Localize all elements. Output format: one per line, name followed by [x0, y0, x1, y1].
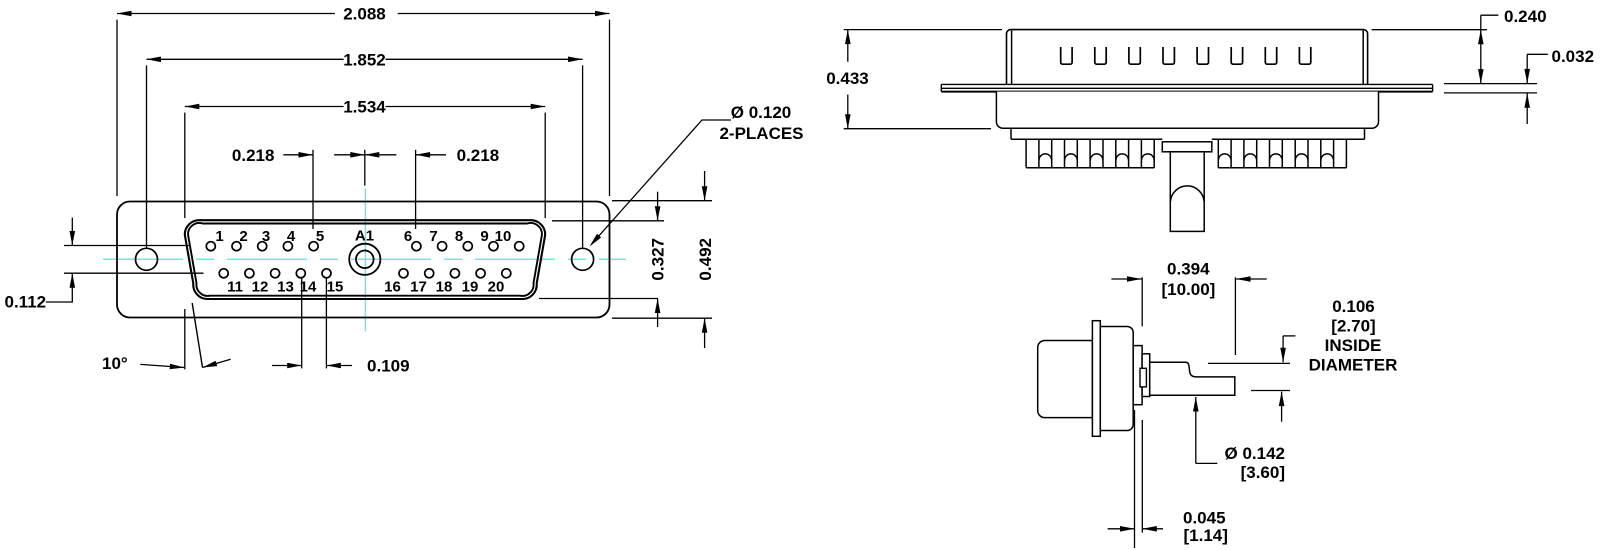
pin 13 — [271, 269, 280, 278]
svg-text:[2.70]: [2.70] — [1331, 317, 1375, 336]
svg-text:7: 7 — [429, 228, 437, 245]
coax contact A1 inner ring — [356, 250, 374, 268]
extension line bottom pin row — [64, 272, 204, 274]
pin 7 — [438, 242, 447, 251]
extension line flange bottom — [612, 317, 712, 319]
pin 15 — [322, 269, 331, 278]
contact slot 8 (shell face) — [1299, 47, 1310, 64]
svg-text:1.852: 1.852 — [343, 50, 386, 69]
mounting flange plate (edge view) — [941, 84, 1432, 91]
extension line right (2.088) — [609, 20, 611, 196]
svg-text:Ø 0.120: Ø 0.120 — [731, 103, 792, 122]
pin 11 — [219, 269, 228, 278]
pin 18 — [450, 269, 459, 278]
extension line A1 center — [364, 150, 366, 186]
svg-text:10: 10 — [495, 228, 512, 245]
solder tails group right (contacts, side view) — [1218, 139, 1346, 168]
dimension 1.852 (mounting hole spacing) — [147, 58, 344, 60]
svg-text:5: 5 — [316, 228, 324, 245]
svg-text:INSIDE: INSIDE — [1325, 336, 1382, 355]
contact slot 4 (shell face) — [1163, 47, 1174, 64]
extension line cup bottom — [1251, 390, 1290, 392]
extension line plate bottom — [1444, 92, 1537, 94]
svg-text:[3.60]: [3.60] — [1241, 463, 1285, 482]
pin 17 — [425, 269, 434, 278]
svg-text:16: 16 — [384, 279, 401, 296]
coax contact A1 outer ring — [349, 244, 380, 275]
dimension 0.218 right (A1 to pin 6) — [350, 152, 365, 158]
extension line left (1.534) — [184, 113, 186, 218]
svg-text:0.032: 0.032 — [1552, 47, 1595, 66]
pin 1 — [206, 242, 215, 251]
shell inner wall left — [1011, 30, 1013, 84]
coax contact rear barrel — [1038, 341, 1093, 418]
pin 6 — [412, 242, 421, 251]
svg-text:2: 2 — [239, 228, 247, 245]
svg-text:19: 19 — [462, 279, 479, 296]
extension line right (1.534) — [544, 113, 546, 218]
pin 8 — [463, 242, 472, 251]
svg-text:1.534: 1.534 — [343, 98, 386, 117]
extension line pin 14 — [301, 278, 303, 368]
extension line top pin row — [64, 245, 190, 247]
svg-text:[10.00]: [10.00] — [1161, 280, 1215, 299]
svg-text:0.045: 0.045 — [1183, 509, 1226, 528]
horizontal centerline (cyan) — [103, 258, 626, 260]
leader to 0.032 text — [1527, 53, 1548, 55]
leader to 0.106 text — [1283, 335, 1295, 337]
contact slot 6 (shell face) — [1231, 47, 1242, 64]
contact slot 1 (shell face) — [1061, 47, 1072, 64]
leader to 0.112 text — [46, 301, 73, 303]
svg-text:2-PLACES: 2-PLACES — [719, 124, 803, 143]
extension line left (0.045) — [1134, 410, 1136, 548]
extension line left (1.852) — [146, 65, 148, 248]
leader to 0.240 text — [1481, 14, 1499, 16]
svg-text:6: 6 — [404, 228, 412, 245]
svg-text:DIAMETER: DIAMETER — [1309, 356, 1398, 375]
svg-text:13: 13 — [277, 279, 294, 296]
svg-text:0.240: 0.240 — [1504, 7, 1547, 26]
pin 19 — [476, 269, 485, 278]
svg-text:11: 11 — [227, 279, 243, 296]
leader note: mounting hole diameter 0.120, 2 places — [592, 120, 732, 244]
svg-text:18: 18 — [436, 279, 453, 296]
extension line shell top right — [1372, 29, 1487, 31]
leader tail on slant — [203, 359, 231, 367]
pin 14 — [296, 269, 305, 278]
contact slot 7 (shell face) — [1265, 47, 1276, 64]
pin 16 — [399, 269, 408, 278]
extension line plate top — [1444, 83, 1537, 85]
svg-text:15: 15 — [327, 279, 344, 296]
insulator step — [1011, 128, 1365, 139]
shell body side view outline — [1007, 30, 1368, 85]
D-sub insert outer contour — [185, 220, 545, 299]
svg-text:0.218: 0.218 — [232, 146, 275, 165]
extension line pin 15 — [325, 278, 327, 368]
pin 2 — [232, 242, 241, 251]
extension line flange top — [612, 200, 712, 202]
extension line pin 5 — [312, 150, 314, 229]
svg-text:0.106: 0.106 — [1332, 297, 1375, 316]
dimension diameter 0.142 [3.60] (cup outside) — [1195, 397, 1197, 463]
svg-text:0.109: 0.109 — [367, 357, 410, 376]
coax contact flange disc — [1092, 321, 1100, 437]
svg-text:0.433: 0.433 — [826, 69, 869, 88]
svg-text:0.218: 0.218 — [457, 146, 500, 165]
svg-text:17: 17 — [410, 279, 427, 296]
svg-text:[1.14]: [1.14] — [1184, 526, 1228, 545]
pin 3 — [258, 242, 267, 251]
extension line right (0.045) — [1141, 420, 1143, 533]
coax contact middle barrel — [1100, 327, 1133, 431]
svg-text:2.088: 2.088 — [343, 5, 386, 24]
vertical centerline through A1 (cyan) — [364, 189, 366, 332]
coax contact A1 solder cup (side view) — [1170, 152, 1204, 232]
pin 4 — [283, 242, 292, 251]
extension line pin 6 — [415, 150, 417, 229]
extension line cup top — [1208, 362, 1290, 364]
coax contact front collar — [1142, 354, 1150, 397]
extension line insulator bottom — [844, 128, 991, 130]
coax solder cup dome — [1170, 186, 1204, 202]
coax contact step — [1133, 346, 1142, 405]
svg-text:1: 1 — [215, 228, 223, 245]
solder tails group left (contacts, side view) — [1026, 139, 1154, 168]
svg-text:A1: A1 — [355, 228, 374, 245]
coax contact detail notch — [1140, 368, 1146, 387]
svg-text:4: 4 — [287, 228, 296, 245]
svg-text:10°: 10° — [102, 354, 128, 373]
pin 20 — [502, 269, 511, 278]
dimension 2.088 (overall width) — [117, 13, 335, 15]
slanted insert edge extension — [192, 303, 202, 368]
extension line insert bottom — [539, 298, 658, 300]
extension line shell top — [844, 29, 1002, 31]
contact slot 3 (shell face) — [1129, 47, 1140, 64]
svg-text:0.492: 0.492 — [696, 238, 715, 281]
svg-text:0.327: 0.327 — [648, 238, 667, 281]
connector flange outline (front view) — [117, 202, 610, 318]
svg-text:9: 9 — [480, 228, 488, 245]
contact slot 2 (shell face) — [1095, 47, 1106, 64]
extension line right (1.852) — [582, 65, 584, 248]
svg-text:12: 12 — [252, 279, 269, 296]
pin 9 — [489, 242, 498, 251]
pin 10 — [515, 242, 524, 251]
coax contact solder cup sleeve — [1150, 362, 1235, 395]
leader to vertical reference — [140, 364, 184, 367]
pin 12 — [245, 269, 254, 278]
insulator housing (side view) — [996, 92, 1378, 129]
svg-text:3: 3 — [262, 228, 270, 245]
dimension 1.534 (insert width) — [185, 106, 344, 108]
contact slot 5 (shell face) — [1197, 47, 1208, 64]
svg-text:0.112: 0.112 — [5, 293, 47, 312]
extension line insert top — [552, 220, 664, 222]
extension line left (0.394) — [1141, 277, 1143, 326]
D-sub insert inner contour — [188, 223, 542, 296]
pin 5 — [309, 242, 318, 251]
extension line left (2.088) — [116, 20, 118, 196]
svg-text:8: 8 — [455, 228, 463, 245]
svg-text:0.394: 0.394 — [1167, 260, 1210, 279]
mounting hole left — [136, 248, 158, 270]
svg-text:Ø 0.142: Ø 0.142 — [1225, 444, 1286, 463]
coax contact A1 collar (side view) — [1162, 142, 1212, 152]
svg-text:20: 20 — [488, 279, 505, 296]
vertical reference line — [184, 309, 186, 369]
extension line right (0.394) — [1234, 277, 1236, 355]
shell inner wall right — [1362, 30, 1364, 84]
mounting hole right — [572, 248, 594, 270]
